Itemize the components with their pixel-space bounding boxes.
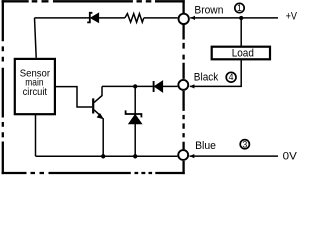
svg-text:1: 1 — [237, 3, 242, 13]
svg-text:Brown: Brown — [194, 4, 223, 16]
wire: base wire from sensor circuit to transistor Q1 — [55, 87, 92, 107]
diode D1 (cathode bar) — [153, 81, 155, 92]
wire: emitter down to bottom rail — [102, 118, 104, 156]
svg-text:Load: Load — [232, 47, 254, 59]
transistor Q1 base bar — [92, 98, 94, 113]
resistor R1 (zigzag) — [125, 14, 144, 23]
terminal: Black output circle — [178, 80, 188, 90]
wire: Load down and left to Black terminal — [190, 59, 241, 86]
terminal: Brown output circle — [179, 14, 189, 24]
transistor Q1 collector lead — [94, 86, 102, 102]
svg-text:0V: 0V — [283, 150, 298, 162]
svg-text:Black: Black — [194, 71, 219, 83]
node: junction dot zener ZD2 top — [133, 84, 137, 88]
wire: D1 to Black terminal — [163, 85, 178, 87]
arrow into Blue terminal — [190, 154, 195, 158]
enclosure border right (dash-dot-dot through terminals) — [182, 0, 184, 174]
wire: black rail from collector corner to Black terminal — [102, 85, 153, 87]
svg-text:+V: +V — [286, 11, 298, 23]
zener diode ZD1 (triangle pointing left) — [91, 13, 99, 22]
box: Sensor main circuit — [15, 59, 55, 114]
wire: bottom rail to Blue terminal — [36, 155, 178, 157]
arrow into Brown terminal — [190, 16, 195, 20]
zener diode ZD2 cathode bar with hooks — [126, 110, 142, 117]
pin number 3 (circled) — [240, 140, 249, 149]
zener diode ZD2 vertical wire — [134, 86, 136, 156]
diode D1 (triangle pointing left) — [154, 81, 162, 92]
arrow into Black terminal — [190, 84, 195, 88]
node: junction dot ZD2 bottom on bottom rail — [133, 154, 137, 158]
wire: resistor R1 to Brown terminal — [144, 17, 178, 19]
wire: sensor box bottom to bottom rail — [35, 114, 37, 156]
pin number 4 (circled) — [226, 72, 236, 82]
transistor Q1 emitter lead with arrow — [94, 110, 100, 115]
wire: sensor box top to top rail corner — [35, 18, 37, 58]
wire: ZD1 to resistor R1 — [99, 17, 125, 19]
zener diode ZD2 triangle pointing up — [129, 115, 142, 124]
wire: +V supply line — [190, 17, 278, 19]
pin number 1 (circled) — [235, 3, 244, 12]
enclosure border top (dash-dot-dot) — [2, 0, 185, 2]
svg-text:Blue: Blue — [195, 140, 216, 152]
node: junction dot emitter on bottom rail — [101, 154, 105, 158]
wire: +V line down to Load — [240, 18, 242, 47]
node: junction dot load tap on +V line — [239, 16, 243, 20]
svg-text:3: 3 — [242, 139, 247, 149]
wire: 0V line — [190, 155, 279, 157]
enclosure border bottom (dash-dot-dot) — [2, 172, 185, 174]
box: Load — [212, 47, 270, 60]
svg-text:4: 4 — [229, 72, 234, 82]
zener diode ZD1 (cathode bar with hooks) — [87, 13, 92, 23]
svg-text:circuit: circuit — [23, 86, 47, 98]
wire: top rail from corner to zener ZD1 — [35, 17, 90, 19]
terminal: Blue output circle — [178, 150, 188, 160]
enclosure border left (dash-dot-dot) — [2, 0, 4, 174]
